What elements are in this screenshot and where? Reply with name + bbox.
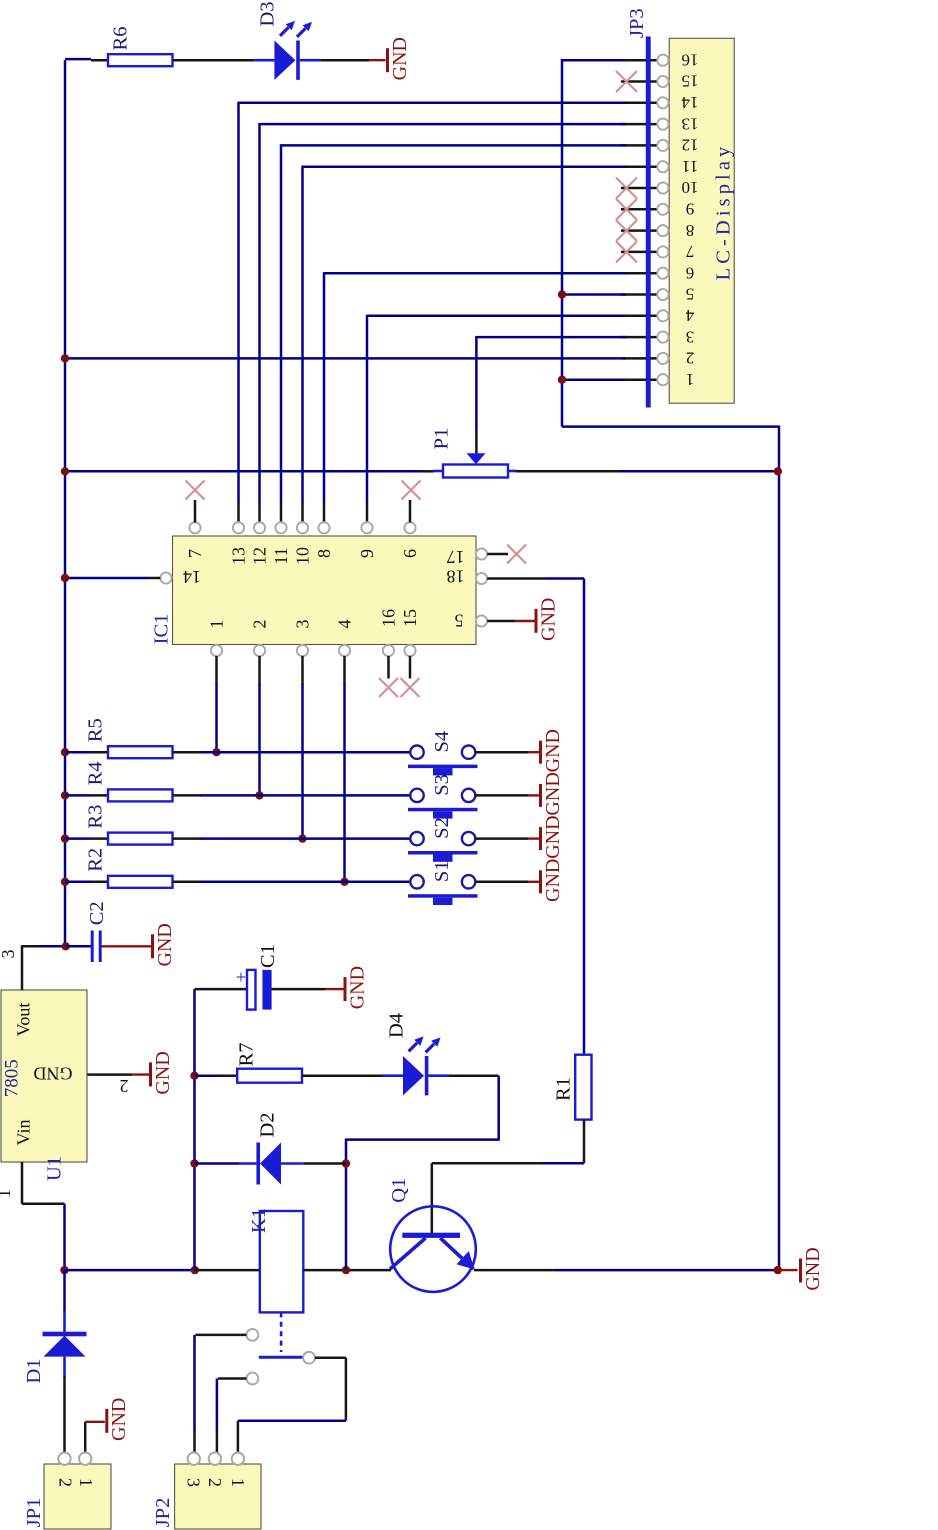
svg-text:+: + xyxy=(236,968,247,989)
wire K1 contact NO to JP2 pin3 xyxy=(195,1335,247,1453)
junction +5V rail / R2 row xyxy=(61,878,69,886)
resistor R4 xyxy=(108,789,173,801)
wire IC1 pin1 down to row xyxy=(215,656,218,752)
svg-text:6: 6 xyxy=(400,549,420,558)
diode D1 xyxy=(43,1311,87,1377)
no-connect X IC1 pin6 xyxy=(402,481,421,500)
svg-text:10: 10 xyxy=(682,178,699,197)
transistor Q1 xyxy=(390,1206,476,1292)
wire +12V vertical x195 xyxy=(193,989,196,1270)
svg-text:C1: C1 xyxy=(257,944,279,968)
svg-text:3: 3 xyxy=(0,950,18,959)
wire IC1 pin3 down to row xyxy=(301,656,304,839)
svg-text:D2: D2 xyxy=(256,1112,278,1137)
svg-text:2: 2 xyxy=(120,1076,129,1096)
svg-text:16: 16 xyxy=(682,50,699,69)
ground GND (S1) xyxy=(541,859,564,902)
wire D2 anode to junction xyxy=(304,1162,346,1165)
svg-text:D1: D1 xyxy=(23,1358,45,1383)
svg-text:1: 1 xyxy=(76,1478,96,1487)
label Q1 xyxy=(388,1178,410,1203)
label D1 xyxy=(23,1358,45,1383)
ground GND (IC1 pin5) xyxy=(536,598,559,641)
svg-text:S4: S4 xyxy=(431,731,453,753)
svg-text:IC1: IC1 xyxy=(150,614,172,645)
svg-text:R2: R2 xyxy=(85,848,107,872)
svg-text:GND: GND xyxy=(34,1063,73,1083)
LED D4 xyxy=(382,1036,449,1095)
U1 pin name Vout xyxy=(14,1003,34,1037)
wire C2 to ground xyxy=(102,945,152,947)
svg-text:11: 11 xyxy=(682,157,698,176)
bus bar JP3 xyxy=(646,37,651,408)
wire S1 to ground xyxy=(475,881,540,884)
label R4 xyxy=(85,761,107,785)
connector JP3 pin circles xyxy=(657,55,668,386)
no-connect X IC1 pin16 xyxy=(379,678,398,697)
label JP1 xyxy=(23,1498,45,1528)
svg-text:3: 3 xyxy=(183,1478,203,1487)
wire GND net vertical x562 xyxy=(561,59,564,427)
no-connect X JP3 pin 10 xyxy=(616,178,637,199)
LED D3 xyxy=(253,21,320,80)
svg-text:S1: S1 xyxy=(431,860,453,882)
wire JP1 pin1 to ground xyxy=(85,1422,105,1452)
switch S3 xyxy=(408,789,478,819)
resistor R3 xyxy=(108,833,173,845)
connector JP3 pin numbers 1-16 xyxy=(681,50,699,389)
svg-text:GND: GND xyxy=(542,729,564,772)
svg-text:JP3: JP3 xyxy=(626,8,648,38)
connector JP2 pin circles xyxy=(188,1453,244,1465)
ground GND (S4) xyxy=(541,729,564,772)
wire S3 to ground xyxy=(475,794,540,797)
ground GND (D3) xyxy=(388,37,411,80)
ground GND (S2) xyxy=(541,815,564,858)
svg-text:15: 15 xyxy=(682,72,699,91)
switch S1 xyxy=(408,875,478,905)
label P1 xyxy=(430,428,452,450)
label JP3 xyxy=(626,8,648,38)
wire +12V to D1 xyxy=(63,1270,66,1312)
wire JP3 pin13 to IC1 pin12 xyxy=(260,123,627,523)
resistor R5 xyxy=(108,746,173,758)
wire rail to R3 xyxy=(65,837,108,840)
junction +12V / x195 net xyxy=(191,1266,199,1274)
junction JP3 pin5 net xyxy=(558,290,566,298)
svg-text:R1: R1 xyxy=(552,1077,574,1101)
label JP2 xyxy=(152,1498,174,1528)
label K1 xyxy=(248,1208,270,1233)
svg-text:S3: S3 xyxy=(431,774,453,796)
junction D4 return / D2 xyxy=(342,1159,350,1167)
capacitor C1 xyxy=(236,968,272,1010)
svg-text:C2: C2 xyxy=(86,901,108,925)
label D2 xyxy=(256,1112,278,1137)
junction +12V / R7 xyxy=(190,1072,198,1080)
svg-text:14: 14 xyxy=(183,567,201,587)
no-connect X JP3 pin 15 xyxy=(616,71,637,92)
label S1 xyxy=(431,860,453,882)
wire R6 to D3 xyxy=(173,59,255,62)
svg-text:4: 4 xyxy=(335,620,355,629)
svg-text:16: 16 xyxy=(379,609,399,627)
label IC1 xyxy=(150,614,172,645)
wire JP3 pin4 to IC1 pin9 xyxy=(367,315,626,523)
svg-text:K1: K1 xyxy=(248,1208,270,1233)
svg-text:GND: GND xyxy=(542,772,564,815)
U1 pin number 1 xyxy=(0,1189,14,1198)
junction IC1 pin1 / row xyxy=(212,748,220,756)
IC1 pin5 stub to ground xyxy=(487,620,534,623)
U1 pin name GND xyxy=(34,1063,73,1083)
junction P1 / right rail xyxy=(774,467,782,475)
IC1 pin16 stub xyxy=(387,656,390,679)
wire D4 return to Q1 collector net xyxy=(346,1076,500,1270)
connector JP3 box xyxy=(669,38,734,403)
wire S2 to ground xyxy=(475,837,540,840)
IC1 bottom pin numbers xyxy=(207,609,421,629)
label S4 xyxy=(431,731,453,753)
junction IC1 pin4 / row xyxy=(340,878,348,886)
wire rail to K1 xyxy=(195,1269,259,1272)
wire R4 to switch S3 xyxy=(173,794,411,797)
no-connect X IC1 pin15 xyxy=(401,678,420,697)
wire D3 to ground xyxy=(320,59,385,62)
svg-text:D4: D4 xyxy=(385,1013,407,1038)
wire JP3 pin5 stub xyxy=(562,293,626,296)
wire bottom rail left xyxy=(65,1269,196,1272)
svg-text:15: 15 xyxy=(400,609,420,627)
svg-text:Vin: Vin xyxy=(14,1120,34,1146)
wire JP3 pin16 to GND net xyxy=(562,59,626,62)
IC1 pin numbers 17 18 5 xyxy=(447,547,465,631)
svg-text:1: 1 xyxy=(0,1189,14,1198)
svg-text:8: 8 xyxy=(314,549,334,558)
junction +5V / P1 row xyxy=(61,467,69,475)
IC1 top pin numbers xyxy=(185,547,420,565)
wire IC1 pin18 to R1 xyxy=(487,579,584,1055)
svg-text:13: 13 xyxy=(229,547,249,565)
resistor R2 xyxy=(108,876,173,888)
wire IC1 pin4 down to row xyxy=(343,656,346,882)
U1 pin2 stub to ground xyxy=(87,1073,149,1076)
IC1 pin7 stub xyxy=(194,500,197,523)
wire JP3 pin6 to IC1 pin8 xyxy=(324,272,626,522)
regulator U1 box xyxy=(1,990,87,1162)
svg-text:GND: GND xyxy=(537,598,559,641)
label R1 xyxy=(552,1077,574,1101)
IC1 pin number 14 xyxy=(183,567,201,587)
U1 pin name Vin xyxy=(14,1120,34,1146)
svg-text:7: 7 xyxy=(185,549,205,558)
wire S4 to ground xyxy=(475,751,540,754)
svg-text:1: 1 xyxy=(686,370,695,389)
relay coil K1 xyxy=(260,1211,304,1312)
ground GND (S3) xyxy=(541,772,564,815)
K1 contact circles xyxy=(247,1329,315,1384)
no-connect X IC1 pin7 xyxy=(186,481,205,500)
svg-text:10: 10 xyxy=(293,547,313,565)
wire rail to R5 xyxy=(65,751,108,754)
junction +5V rail / R5 row xyxy=(61,748,69,756)
IC1 pin17 stub xyxy=(487,553,508,556)
wire +5V to P1 xyxy=(65,470,434,473)
potentiometer P1 xyxy=(433,453,517,477)
IC1 pin6 stub xyxy=(409,500,412,523)
IC1 bottom pin circles xyxy=(211,645,416,656)
wire Q1 emitter to GND xyxy=(474,1269,778,1272)
svg-text:9: 9 xyxy=(686,200,695,219)
label C1 xyxy=(257,944,279,968)
junction +12V rail / U1 pin1 / D1 xyxy=(60,1266,68,1274)
svg-text:R7: R7 xyxy=(236,1042,258,1066)
diode D2 xyxy=(238,1143,304,1185)
ground GND (JP1) xyxy=(107,1398,130,1441)
junction +5V rail / U1 pin3 / C2 xyxy=(61,942,69,950)
junction IC1 pin3 / row xyxy=(298,834,306,842)
svg-text:5: 5 xyxy=(455,610,464,630)
label S3 xyxy=(431,774,453,796)
svg-text:3: 3 xyxy=(686,327,695,346)
connector JP2 box xyxy=(175,1464,261,1529)
no-connect X JP3 pin 7 xyxy=(616,241,637,262)
IC1 pin15 stub xyxy=(409,656,412,679)
wire right rail vertical xyxy=(778,426,781,1271)
ground GND (C2) xyxy=(153,923,176,966)
U1 pin number 3 xyxy=(0,950,18,959)
junction IC1 pin2 / row xyxy=(255,791,263,799)
svg-text:11: 11 xyxy=(271,547,291,564)
wire JP3 pin3 to P1 wiper xyxy=(476,336,626,454)
svg-text:4: 4 xyxy=(685,306,694,325)
wire +5V left rail vertical xyxy=(64,60,67,946)
svg-text:P1: P1 xyxy=(430,428,452,450)
svg-text:14: 14 xyxy=(681,93,699,112)
svg-text:Vout: Vout xyxy=(14,1003,34,1037)
wire R1 to Q1 base xyxy=(432,1120,584,1233)
resistor R1 xyxy=(575,1055,591,1120)
wire K1 common to JP2 pin1 xyxy=(238,1358,346,1452)
svg-text:2: 2 xyxy=(205,1478,225,1487)
svg-text:17: 17 xyxy=(447,547,465,567)
ground GND (C1) xyxy=(345,966,368,1009)
ground stub bottom right xyxy=(778,1269,798,1271)
svg-text:U1: U1 xyxy=(43,1156,65,1181)
U1 pin1 wire xyxy=(22,1162,65,1270)
label D3 xyxy=(256,1,278,26)
svg-text:13: 13 xyxy=(682,114,699,133)
svg-text:GND: GND xyxy=(346,966,368,1009)
svg-text:GND: GND xyxy=(802,1247,824,1290)
svg-text:7805: 7805 xyxy=(1,1059,22,1097)
svg-text:D3: D3 xyxy=(256,1,278,26)
wire JP3 pin14 to IC1 pin13 xyxy=(239,102,627,523)
switch S4 xyxy=(408,746,478,776)
svg-text:1: 1 xyxy=(228,1478,248,1487)
svg-text:12: 12 xyxy=(682,136,699,155)
junction +12V / D2 xyxy=(190,1159,198,1167)
wire GND net corner to right rail xyxy=(562,425,779,428)
no-connect X JP3 pin 8 xyxy=(616,220,637,241)
IC1 top pin circles xyxy=(189,522,415,533)
svg-text:6: 6 xyxy=(686,263,695,282)
svg-text:LC-Display: LC-Display xyxy=(712,143,734,281)
value 7805 xyxy=(1,1059,22,1097)
svg-text:2: 2 xyxy=(55,1478,75,1487)
wire R5 to switch S4 xyxy=(173,751,411,754)
svg-text:3: 3 xyxy=(293,620,313,629)
wire C1 to ground xyxy=(272,988,344,991)
wire JP3 pin11 to IC1 pin10 xyxy=(303,166,627,523)
capacitor C2 xyxy=(92,931,100,963)
junction JP3 pin1 net xyxy=(558,376,566,384)
U1 pin number 2 xyxy=(120,1076,129,1096)
connector JP1 box xyxy=(44,1464,111,1529)
value LC-Display xyxy=(712,143,734,281)
label U1 xyxy=(43,1156,65,1181)
label R5 xyxy=(85,718,107,742)
wire +5V to JP3 pin2 xyxy=(65,357,626,360)
IC IC1 box xyxy=(173,536,477,645)
connector JP1 pin circles xyxy=(58,1453,91,1465)
junction +5V rail / R3 row xyxy=(61,834,69,842)
junction +5V / IC1 pin14 xyxy=(61,574,69,582)
svg-text:R6: R6 xyxy=(109,27,131,51)
no-connect X JP3 pin 9 xyxy=(616,199,637,220)
label R7 xyxy=(236,1042,258,1066)
resistor R6 xyxy=(108,54,173,66)
svg-text:1: 1 xyxy=(207,620,227,629)
junction +5V / JP3 pin2 xyxy=(61,354,69,362)
wire IC1 pin2 down to row xyxy=(258,656,261,795)
junction K1 side / D4 return xyxy=(342,1266,350,1274)
wire P1 to right rail xyxy=(516,470,779,473)
svg-text:GND: GND xyxy=(152,1051,174,1094)
svg-text:GND: GND xyxy=(154,923,176,966)
JP1 pin numbers xyxy=(55,1478,95,1487)
IC1 left pin circle (14) xyxy=(160,572,171,583)
svg-text:R5: R5 xyxy=(85,718,107,742)
wire rail to R2 xyxy=(65,881,108,884)
no-connect X IC1 pin17 xyxy=(507,545,526,564)
label D4 xyxy=(385,1013,407,1038)
svg-text:8: 8 xyxy=(686,221,695,240)
svg-text:R3: R3 xyxy=(85,805,107,829)
svg-text:GND: GND xyxy=(542,815,564,858)
svg-text:GND: GND xyxy=(108,1398,130,1441)
svg-text:18: 18 xyxy=(447,566,465,586)
svg-text:GND: GND xyxy=(389,37,411,80)
svg-text:S2: S2 xyxy=(431,817,453,839)
wire K1 to Q1 side xyxy=(303,1269,391,1272)
svg-text:5: 5 xyxy=(686,285,695,304)
JP2 pin numbers xyxy=(183,1478,247,1487)
wire D1 to JP1 pin2 xyxy=(63,1376,66,1452)
svg-text:JP1: JP1 xyxy=(23,1498,45,1528)
junction +5V rail / R4 row xyxy=(61,791,69,799)
wire to C2 xyxy=(66,945,91,948)
wire K1 contact NC to JP2 pin2 xyxy=(217,1379,247,1453)
wire C1 feed xyxy=(195,988,248,991)
svg-text:7: 7 xyxy=(685,242,694,261)
wire to R7 xyxy=(195,1074,238,1077)
label C2 xyxy=(86,901,108,925)
label R2 xyxy=(85,848,107,872)
label R6 xyxy=(109,27,131,51)
wire JP3 pin12 to IC1 pin11 xyxy=(281,144,626,522)
IC1 right pin circles (17,18,5) xyxy=(476,548,487,626)
wire rail to R4 xyxy=(65,794,108,797)
wire R7 to D4 xyxy=(302,1074,382,1077)
K1 contact lever xyxy=(259,1356,304,1359)
wire R3 to switch S2 xyxy=(173,837,411,840)
label S2 xyxy=(431,817,453,839)
svg-text:2: 2 xyxy=(250,620,270,629)
switch S2 xyxy=(408,832,478,862)
svg-text:12: 12 xyxy=(250,547,270,565)
svg-text:Q1: Q1 xyxy=(388,1178,410,1203)
svg-text:2: 2 xyxy=(686,349,695,368)
ground GND (bottom right) xyxy=(801,1247,824,1290)
ground GND (U1 pin2) xyxy=(151,1051,174,1094)
svg-text:9: 9 xyxy=(357,549,377,558)
connector JP3 pin stubs xyxy=(621,60,658,380)
wire R2 to switch S1 xyxy=(173,881,411,884)
K1 actuator dashed line xyxy=(280,1312,283,1352)
resistor R7 xyxy=(237,1069,302,1083)
junction right rail / GND xyxy=(774,1266,782,1274)
wire to D2 cathode xyxy=(195,1162,240,1165)
svg-text:JP2: JP2 xyxy=(152,1498,174,1528)
label R3 xyxy=(85,805,107,829)
wire JP3 pin1 stub xyxy=(562,378,626,381)
wire R6 row from rail xyxy=(65,59,108,60)
svg-text:R4: R4 xyxy=(85,761,107,785)
U1 pin3 wire xyxy=(22,945,66,990)
svg-text:GND: GND xyxy=(542,859,564,902)
wire +5V to IC1 pin14 xyxy=(65,577,160,580)
